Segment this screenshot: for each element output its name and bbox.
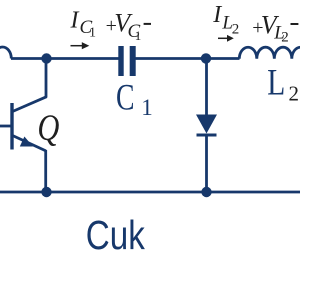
- svg-text:1: 1: [141, 95, 153, 120]
- svg-text:2: 2: [232, 22, 240, 38]
- diode D1: [196, 59, 217, 193]
- node top-right: [201, 53, 211, 63]
- svg-text:I: I: [70, 8, 80, 34]
- wire emitter vertical: [44, 150, 47, 192]
- node bottom-right: [201, 187, 211, 197]
- transistor Q: [0, 97, 47, 151]
- label I_L2: [212, 2, 239, 38]
- node top-left: [41, 53, 51, 63]
- label C1: [116, 77, 153, 120]
- arrow for I_L2: [218, 35, 234, 42]
- label I_C1: [70, 8, 97, 41]
- bottom wire: [0, 191, 300, 194]
- label +V_C1 -: [106, 8, 151, 43]
- arrow for I_C1: [71, 42, 90, 49]
- wire top-left: [11, 57, 119, 60]
- inductor L1 (partial, clipped at left edge): [0, 47, 11, 59]
- svg-text:Cuk: Cuk: [86, 212, 145, 258]
- capacitor C1: [118, 46, 135, 76]
- svg-text:L: L: [267, 63, 285, 104]
- node bottom-left: [41, 187, 51, 197]
- svg-text:1: 1: [89, 26, 96, 41]
- inductor L2: [239, 47, 309, 58]
- wire top-middle: [136, 57, 240, 60]
- label L2: [267, 63, 299, 106]
- wire collector vertical: [45, 59, 48, 98]
- svg-text:1: 1: [135, 28, 142, 43]
- svg-text:I: I: [212, 2, 222, 28]
- svg-text:2: 2: [281, 30, 289, 46]
- svg-text:C: C: [116, 77, 135, 118]
- label +V_L2 -: [252, 11, 298, 46]
- svg-text:2: 2: [289, 82, 300, 106]
- svg-text:Q: Q: [37, 108, 59, 149]
